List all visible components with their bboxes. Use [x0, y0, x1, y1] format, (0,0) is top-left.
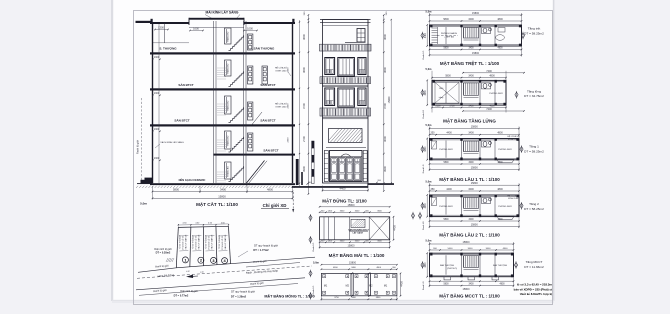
svg-text:DT = 1.77m2: DT = 1.77m2 [253, 248, 269, 252]
svg-text:HÀ HUY GIÁP 4.6: HÀ HUY GIÁP 4.6 [198, 235, 201, 250]
svg-text:Ranh LG: Ranh LG [423, 109, 425, 118]
svg-text:DT = 11.66m2: DT = 11.66m2 [524, 265, 544, 269]
svg-text:15800: 15800 [463, 241, 471, 244]
svg-text:DT 4.6x39 LÔ 23: DT 4.6x39 LÔ 23 [221, 236, 224, 250]
svg-text:TỜ 23 THỬA 456: TỜ 23 THỬA 456 [218, 235, 221, 249]
svg-text:S. THƯỢNG: S. THƯỢNG [159, 47, 177, 51]
svg-text:+ BẾP ĂN: + BẾP ĂN [444, 36, 454, 39]
svg-text:Chỉ giới XD: Chỉ giới XD [263, 203, 287, 208]
svg-text:THANG BỘ: THANG BỘ [227, 31, 230, 42]
svg-text:4800: 4800 [499, 284, 505, 286]
svg-text:4800: 4800 [497, 162, 503, 164]
svg-text:LÁT GẠCH: LÁT GẠCH [353, 232, 364, 235]
svg-text:3400: 3400 [468, 48, 474, 50]
svg-text:PHÒNG NGỦ: PHÒNG NGỦ [498, 205, 512, 208]
svg-text:Ranh LG: Ranh LG [423, 281, 425, 290]
svg-text:DT = 32.76m2: DT = 32.76m2 [524, 94, 544, 98]
svg-text:HỆ CỬA SỔ: HỆ CỬA SỔ [507, 194, 519, 197]
svg-text:4800: 4800 [503, 248, 509, 250]
svg-text:Ranh LG: Ranh LG [423, 221, 425, 230]
svg-text:SÂN THƯỢNG: SÂN THƯỢNG [440, 264, 455, 267]
svg-text:2100: 2100 [435, 106, 441, 108]
svg-text:Tầng 2: Tầng 2 [529, 202, 539, 206]
svg-text:5800: 5800 [443, 219, 449, 221]
svg-text:4800: 4800 [497, 132, 503, 135]
svg-text:TỜ 23 THỬA 456: TỜ 23 THỬA 456 [192, 235, 195, 249]
svg-text:15800: 15800 [471, 182, 479, 185]
svg-text:SÂN THƯỢNG: SÂN THƯỢNG [493, 264, 508, 267]
svg-text:5,0m: 5,0m [426, 238, 433, 242]
svg-text:1000: 1000 [247, 27, 253, 31]
svg-text:350: 350 [431, 132, 436, 135]
svg-text:DT 4.6x39 LÔ 23: DT 4.6x39 LÔ 23 [182, 236, 185, 250]
svg-text:MẶT BẰNG TRỆT TL : 1/100: MẶT BẰNG TRỆT TL : 1/100 [440, 59, 500, 66]
svg-text:Tầng trệt: Tầng trệt [528, 27, 541, 31]
svg-text:15800: 15800 [349, 262, 357, 265]
svg-text:TỜ 23 THỬA 456: TỜ 23 THỬA 456 [205, 235, 208, 249]
svg-text:4400: 4400 [425, 146, 427, 152]
svg-text:5400: 5400 [448, 248, 454, 250]
svg-text:KÍNH 1400: KÍNH 1400 [276, 105, 287, 108]
svg-text:Diện tích lộ giới: Diện tích lộ giới [180, 290, 198, 293]
svg-text:PHÒNG KHÁCH: PHÒNG KHÁCH [441, 32, 458, 35]
svg-text:3400: 3400 [468, 75, 474, 78]
svg-text:Ranh LG: Ranh LG [423, 50, 425, 59]
svg-text:3400: 3400 [468, 162, 474, 164]
svg-text:4800: 4800 [497, 188, 503, 191]
svg-text:3400: 3400 [468, 248, 474, 250]
svg-text:350: 350 [431, 188, 436, 191]
svg-text:2400: 2400 [288, 103, 290, 109]
svg-text:4400: 4400 [446, 132, 452, 135]
svg-text:3900: 3900 [383, 166, 387, 172]
svg-text:4400: 4400 [425, 89, 427, 95]
svg-text:1300: 1300 [154, 157, 160, 160]
svg-text:3600: 3600 [302, 34, 306, 40]
svg-text:THANG BỘ: THANG BỘ [227, 63, 230, 74]
svg-text:MẶT BẰNG LẦU 2 TL : 1/100: MẶT BẰNG LẦU 2 TL : 1/100 [439, 231, 500, 238]
svg-text:trống: trống [439, 96, 444, 99]
svg-text:DT 4.6x39 LÔ 23: DT 4.6x39 LÔ 23 [208, 236, 211, 250]
svg-text:15800: 15800 [471, 167, 479, 170]
svg-text:SÀN BTCT: SÀN BTCT [178, 82, 193, 87]
svg-text:4.60: 4.60 [200, 271, 204, 273]
svg-text:3400: 3400 [468, 132, 474, 135]
svg-text:5,0m: 5,0m [313, 261, 320, 265]
svg-text:3600: 3600 [302, 67, 306, 73]
svg-text:Tầng MCCT: Tầng MCCT [526, 260, 543, 264]
svg-text:3400: 3400 [468, 188, 474, 191]
svg-text:15800: 15800 [471, 224, 479, 227]
svg-text:4800: 4800 [489, 75, 495, 78]
svg-text:THANG BỘ: THANG BỘ [227, 100, 230, 111]
svg-text:KÍNH 1400: KÍNH 1400 [508, 138, 519, 141]
svg-text:15800: 15800 [471, 126, 479, 129]
svg-text:DT = 0.28m2: DT = 0.28m2 [156, 251, 171, 254]
svg-text:3600: 3600 [383, 34, 387, 40]
svg-text:DT = 58.25m2: DT = 58.25m2 [524, 149, 544, 153]
svg-text:4400: 4400 [393, 225, 396, 231]
svg-text:5,0m: 5,0m [426, 180, 433, 184]
svg-text:HỆ CỬA SỔ: HỆ CỬA SỔ [507, 135, 519, 138]
svg-text:DT 4.6x39 LÔ 23: DT 4.6x39 LÔ 23 [195, 236, 198, 250]
svg-text:4.60: 4.60 [186, 271, 190, 273]
svg-text:5800: 5800 [443, 48, 449, 50]
svg-text:PHÒNG NGỦ: PHÒNG NGỦ [498, 148, 512, 151]
svg-text:TỜ 23 THỬA 456: TỜ 23 THỬA 456 [179, 235, 182, 249]
svg-text:THANG BỘ: THANG BỘ [227, 166, 230, 177]
svg-text:3000: 3000 [383, 136, 387, 142]
svg-text:3600: 3600 [383, 67, 387, 73]
svg-text:(PHƠI ĐỒ): (PHƠI ĐỒ) [447, 267, 457, 270]
svg-text:5,0m: 5,0m [140, 202, 147, 206]
svg-text:7400: 7400 [486, 108, 492, 111]
svg-text:MẶT CẮT TL: 1/100: MẶT CẮT TL: 1/100 [196, 200, 238, 207]
svg-text:4800: 4800 [267, 188, 273, 192]
svg-text:HÀ HUY GIÁP 4.6: HÀ HUY GIÁP 4.6 [224, 235, 227, 250]
svg-text:4800: 4800 [497, 219, 503, 221]
svg-text:PHÒNG NGỦ: PHÒNG NGỦ [439, 205, 453, 208]
svg-text:SÀN BTCT: SÀN BTCT [174, 118, 189, 123]
svg-text:3400: 3400 [468, 284, 474, 286]
svg-text:1300: 1300 [154, 92, 160, 95]
svg-text:MẶT BẰNG MÓNG TL : 1/100: MẶT BẰNG MÓNG TL : 1/100 [264, 293, 314, 298]
svg-text:1300: 1300 [154, 128, 160, 131]
svg-text:HÀ HUY GIÁP 4.6: HÀ HUY GIÁP 4.6 [211, 235, 214, 250]
svg-text:5,0m: 5,0m [426, 123, 433, 127]
svg-text:MẶT ĐỨNG TL: 1/100: MẶT ĐỨNG TL: 1/100 [322, 198, 367, 203]
svg-text:15800: 15800 [463, 288, 471, 291]
svg-text:DT = 58.25m2: DT = 58.25m2 [524, 31, 544, 35]
svg-text:15800: 15800 [472, 12, 480, 15]
svg-text:5800: 5800 [443, 18, 449, 21]
svg-text:3400: 3400 [468, 18, 474, 21]
svg-text:4400: 4400 [425, 262, 427, 268]
svg-text:5800: 5800 [443, 162, 449, 164]
svg-text:PHÒNG NGỦ: PHÒNG NGỦ [439, 148, 453, 151]
svg-text:2400: 2400 [288, 137, 290, 143]
svg-text:5800: 5800 [173, 188, 179, 192]
svg-text:15800: 15800 [388, 96, 391, 103]
svg-text:5,0m: 5,0m [426, 9, 433, 13]
svg-text:1300: 1300 [154, 56, 160, 59]
svg-text:HỆ CỬA SỔ: HỆ CỬA SỔ [275, 103, 287, 106]
svg-text:DT quy hoạch lộ giới: DT quy hoạch lộ giới [231, 289, 255, 293]
svg-text:4400: 4400 [425, 203, 427, 209]
svg-text:4400: 4400 [400, 281, 403, 287]
svg-text:Ranh LG: Ranh LG [423, 164, 425, 173]
svg-text:DT = 1.28m2: DT = 1.28m2 [231, 294, 247, 298]
svg-text:3700: 3700 [449, 106, 455, 108]
svg-text:3400: 3400 [486, 248, 492, 250]
svg-text:KÍNH 1400: KÍNH 1400 [508, 197, 519, 200]
svg-text:2400: 2400 [288, 67, 290, 73]
svg-text:3700: 3700 [302, 103, 306, 109]
svg-text:SÀN BTCT: SÀN BTCT [260, 82, 275, 87]
svg-text:3400: 3400 [468, 219, 474, 221]
svg-text:7400: 7400 [486, 70, 492, 73]
svg-text:thiết kế 8.8m2TL hợp lệ: thiết kế 8.8m2TL hợp lệ [520, 292, 553, 296]
svg-text:Ranh lộ giới: Ranh lộ giới [136, 140, 140, 154]
svg-text:Tầng lửng: Tầng lửng [527, 89, 541, 93]
svg-text:4800: 4800 [497, 18, 503, 21]
svg-text:1600: 1600 [193, 27, 199, 31]
svg-text:KÍNH 1400: KÍNH 1400 [276, 69, 287, 72]
svg-text:4800: 4800 [497, 48, 503, 50]
svg-text:HÀ HUY GIÁP 4.6: HÀ HUY GIÁP 4.6 [185, 235, 188, 250]
svg-text:Ranh LG: Ranh LG [313, 242, 315, 251]
svg-text:Tầng 1: Tầng 1 [529, 145, 539, 149]
svg-text:THANG BỘ: THANG BỘ [227, 135, 230, 146]
svg-text:4400: 4400 [425, 32, 427, 38]
svg-text:3400: 3400 [468, 106, 474, 108]
svg-text:SÀN THƯỢNG: SÀN THƯỢNG [254, 45, 275, 50]
svg-text:5800: 5800 [443, 284, 449, 286]
svg-text:VÁCH KÍNH LẤY SÁNG: VÁCH KÍNH LẤY SÁNG [160, 141, 184, 144]
svg-text:DT quy hoạch lộ giới: DT quy hoạch lộ giới [254, 244, 278, 248]
svg-text:15800: 15800 [348, 204, 356, 207]
svg-text:3400: 3400 [220, 188, 226, 192]
svg-text:3700: 3700 [383, 103, 387, 109]
svg-text:MẶT BẰNG MCCT TL : 1/100: MẶT BẰNG MCCT TL : 1/100 [439, 292, 500, 299]
svg-text:15800: 15800 [218, 194, 226, 198]
svg-text:5800: 5800 [445, 75, 451, 78]
svg-text:HỆ CỬA SỔ: HỆ CỬA SỔ [275, 67, 287, 70]
svg-text:bản vẽ XDPĐ = 225 (Phải) st: bản vẽ XDPĐ = 225 (Phải) st [514, 287, 552, 291]
svg-text:4400: 4400 [446, 188, 452, 191]
svg-text:MẶT BẰNG MÁI TL : 1/100: MẶT BẰNG MÁI TL : 1/100 [329, 251, 385, 258]
svg-text:MẶT BẰNG LẦU 1 TL : 1/100: MẶT BẰNG LẦU 1 TL : 1/100 [439, 175, 500, 182]
svg-text:3900: 3900 [302, 166, 306, 172]
svg-text:MẶT BẰNG TẦNG LỬNG: MẶT BẰNG TẦNG LỬNG [443, 117, 496, 124]
svg-text:Ranh LG: Ranh LG [313, 285, 315, 294]
svg-text:15800: 15800 [348, 244, 356, 247]
svg-text:2700: 2700 [302, 136, 306, 142]
svg-text:SÀN BTCT: SÀN BTCT [260, 118, 275, 123]
svg-text:DT = 0.77m2: DT = 0.77m2 [174, 295, 189, 298]
svg-text:lô số 3,3 x 62,45 = 218.3m: lô số 3,3 x 62,45 = 218.3m [517, 283, 553, 287]
svg-text:15800: 15800 [472, 52, 480, 55]
svg-text:MÁI KÍNH LẤY SÁNG: MÁI KÍNH LẤY SÁNG [206, 10, 239, 15]
svg-text:5,0m: 5,0m [426, 67, 433, 71]
svg-text:PHÒNG NGỦ: PHÒNG NGỦ [489, 92, 503, 95]
svg-text:DT = 58.25m2: DT = 58.25m2 [524, 207, 544, 211]
svg-text:SÀN BTCT: SÀN BTCT [263, 148, 278, 153]
svg-text:4400: 4400 [340, 186, 346, 190]
